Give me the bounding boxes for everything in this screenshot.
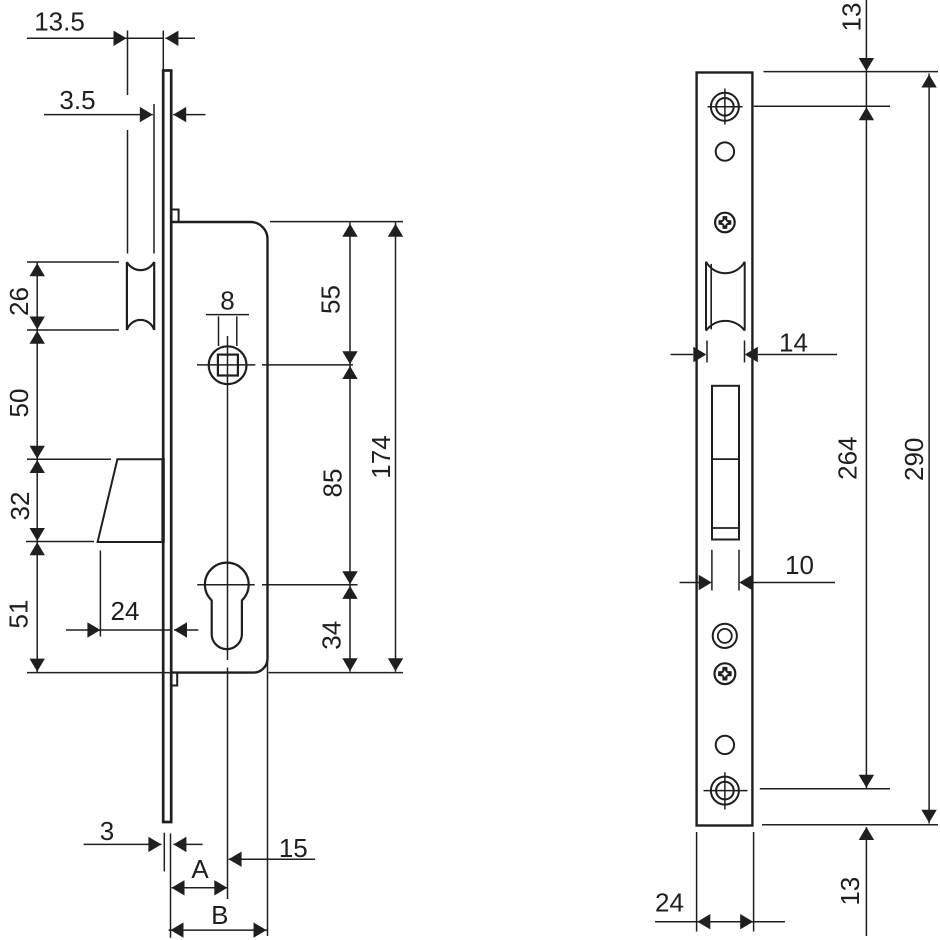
svg-text:10: 10 [785, 550, 814, 580]
svg-text:290: 290 [899, 438, 929, 481]
svg-text:14: 14 [779, 328, 808, 358]
svg-text:264: 264 [833, 437, 863, 480]
svg-text:34: 34 [316, 621, 346, 650]
svg-text:55: 55 [316, 285, 346, 314]
svg-text:50: 50 [4, 389, 34, 418]
svg-text:13: 13 [837, 3, 867, 32]
svg-text:174: 174 [366, 435, 396, 478]
svg-text:85: 85 [318, 469, 348, 498]
svg-text:B: B [211, 900, 228, 930]
svg-text:51: 51 [4, 600, 34, 629]
svg-text:3.5: 3.5 [59, 85, 95, 115]
svg-text:13.5: 13.5 [34, 7, 85, 37]
svg-text:24: 24 [655, 888, 684, 918]
svg-text:32: 32 [5, 492, 35, 521]
svg-text:24: 24 [111, 596, 140, 626]
svg-text:26: 26 [4, 287, 34, 316]
svg-text:15: 15 [279, 833, 308, 863]
svg-text:3: 3 [100, 816, 114, 846]
svg-text:A: A [191, 854, 209, 884]
svg-text:13: 13 [835, 877, 865, 906]
svg-text:8: 8 [220, 286, 234, 316]
